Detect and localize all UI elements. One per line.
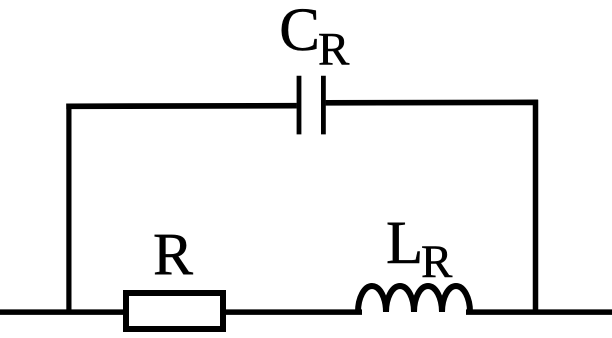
wire: left branch vertical	[66, 104, 71, 312]
wire: bottom rail right segment	[466, 309, 612, 315]
inductor L_R coil	[358, 286, 470, 312]
svg-text:L: L	[386, 210, 423, 277]
capacitor C_R right plate	[321, 76, 326, 135]
svg-text:R: R	[153, 222, 193, 288]
svg-text:C: C	[279, 0, 320, 64]
wire: top rail right segment	[326, 100, 538, 106]
wire: right branch vertical	[533, 100, 539, 312]
svg-text:R: R	[421, 236, 453, 288]
svg-text:R: R	[318, 24, 350, 76]
wire: top rail left segment	[66, 103, 296, 109]
capacitor C_R left plate	[297, 76, 302, 135]
wire: bottom rail left segment	[0, 309, 362, 315]
resistor R body	[126, 293, 223, 329]
